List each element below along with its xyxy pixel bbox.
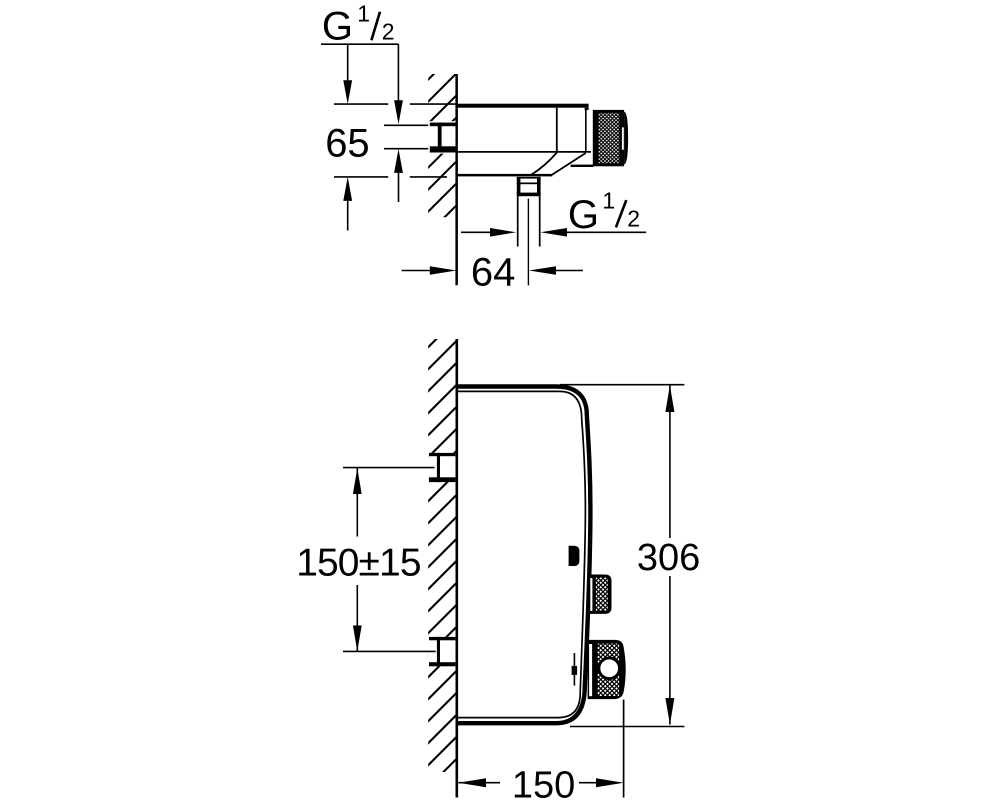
outlet pipe stub left — [517, 196, 519, 246]
outlet leader arrows — [461, 231, 490, 233]
wall hatch (top view) — [287, 70, 592, 221]
svg-text:306: 306 — [637, 537, 700, 579]
lower control knob — [588, 640, 626, 699]
svg-text:65: 65 — [325, 122, 370, 166]
knurl neck bottom line — [571, 165, 594, 167]
body inner vertical line — [556, 108, 558, 152]
extension line body top — [334, 103, 388, 105]
centre tick near lower knob — [573, 653, 575, 686]
shoulder curve right — [552, 153, 586, 175]
svg-text:G: G — [568, 193, 599, 237]
wall face line (top view) — [455, 74, 458, 285]
svg-text:1: 1 — [602, 188, 615, 214]
device outer outline — [456, 387, 590, 724]
body mid horizontal line — [456, 151, 591, 153]
body right edge line — [585, 109, 587, 152]
spout mark — [569, 546, 580, 566]
pipe centre tick — [431, 136, 437, 138]
knurled knob (temperature handle) — [593, 110, 624, 166]
dim 306 extension top — [560, 384, 684, 386]
wall hatch (bottom view) — [0, 335, 880, 776]
dim 150 extension right — [623, 700, 625, 798]
inlet union fitting (white knockout) — [428, 121, 455, 153]
dim 150±15 line — [356, 468, 358, 536]
dim 64 line left — [402, 270, 430, 272]
dim 306 extension bottom — [570, 726, 684, 728]
extension line body bottom — [334, 176, 388, 178]
outlet fitting below body — [517, 177, 541, 179]
svg-text:150: 150 — [512, 765, 575, 800]
body top thick line — [456, 104, 588, 108]
svg-text:2: 2 — [382, 19, 395, 45]
outlet pipe stub right — [539, 196, 541, 246]
upper control knob — [589, 575, 612, 614]
body bottom line — [456, 174, 552, 177]
leader vertical to inlet — [397, 44, 399, 101]
arrow down (65 dim top) — [347, 44, 349, 84]
outlet centre line — [527, 199, 529, 286]
lower mounting bracket — [428, 637, 455, 666]
wall face line (bottom view) — [456, 339, 459, 798]
dim 306 line — [669, 385, 671, 538]
shoulder curve left — [531, 152, 557, 174]
svg-text:G: G — [322, 5, 353, 49]
upper mounting bracket — [428, 453, 455, 482]
dim 64 line right — [529, 266, 556, 275]
dim 150 line — [458, 782, 500, 784]
svg-text:1: 1 — [357, 1, 370, 27]
arrow down to inlet top — [394, 100, 403, 124]
svg-text:64: 64 — [471, 250, 516, 294]
device inner outline — [456, 391, 585, 717]
svg-text:2: 2 — [627, 206, 640, 232]
svg-text:150±15: 150±15 — [296, 541, 421, 584]
supply pipe bottom line — [384, 148, 430, 150]
dim 150±15 extensions — [343, 467, 435, 469]
supply pipe top line — [384, 124, 430, 126]
leader underline of G 1/2 — [321, 43, 398, 45]
arrow up (65 dim bottom) — [343, 177, 352, 201]
inlet union fitting — [430, 123, 456, 127]
arrow up to inlet bottom — [394, 149, 403, 173]
